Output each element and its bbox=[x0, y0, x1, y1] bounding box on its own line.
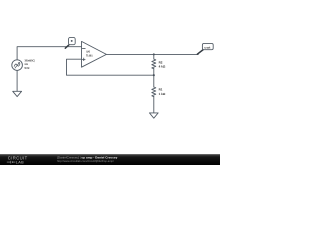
resistor R2 bbox=[152, 54, 166, 68]
op-amp OA2 TL081 bbox=[82, 41, 107, 67]
node junction at feedback tap bbox=[153, 74, 155, 76]
CircuitLab logo bbox=[7, 156, 28, 165]
svg-text:out: out bbox=[204, 46, 210, 50]
wire source bottom to ground bbox=[16, 70, 18, 91]
wire feedback: op-amp + input left, down, right to divider tap bbox=[67, 59, 154, 75]
svg-text:OA2: OA2 bbox=[86, 51, 90, 54]
voltage source V1 (sine) bbox=[12, 60, 23, 71]
resistor R1 bbox=[152, 87, 166, 97]
probe at inverting input bbox=[65, 37, 75, 48]
svg-text:TL081: TL081 bbox=[86, 54, 93, 57]
ground under R1 bbox=[149, 113, 158, 118]
node junction at output / R2 top bbox=[153, 53, 155, 55]
wire between R2 bottom and R1 top bbox=[153, 69, 155, 87]
wire R1 bottom to ground bbox=[153, 97, 155, 113]
ground under source bbox=[13, 91, 22, 96]
svg-text:1 kΩ: 1 kΩ bbox=[159, 92, 166, 96]
V1 value labels bbox=[25, 58, 35, 70]
svg-text:50 Hz: 50 Hz bbox=[25, 66, 30, 70]
wire source top to op-amp inverting input bbox=[17, 47, 81, 60]
footer bar bbox=[0, 154, 220, 165]
wire op-amp output to right bbox=[106, 53, 198, 55]
svg-text:4 kΩ: 4 kΩ bbox=[159, 65, 166, 69]
probe "out" at output bbox=[197, 43, 213, 54]
